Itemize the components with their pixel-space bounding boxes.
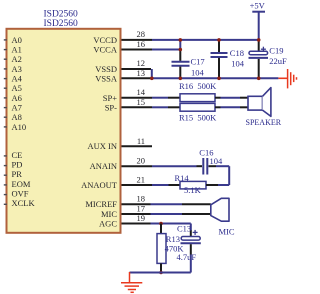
pin 11 stub (AUX IN, unconnected) [122,145,153,147]
svg-text:VCCD: VCCD [93,35,117,45]
wire C16 to corner [216,165,229,167]
wire pin17 to mic [151,213,183,215]
svg-text:C13: C13 [177,224,191,234]
resistor R16 body [180,94,215,102]
speaker pin top [240,97,248,99]
resistor R15 right lead [215,106,221,108]
capacitor C16 left lead [197,165,203,167]
svg-text:C18: C18 [230,48,244,58]
wire R16 to speaker [221,97,241,99]
pin 12 stub [122,68,152,70]
ground right bars [288,69,297,88]
capacitor C13 bottom lead [190,244,192,254]
left pin stubs A0-A10 [4,40,7,127]
svg-text:VSSD: VSSD [95,64,117,74]
wire pin12 drop to VSS [151,69,153,78]
resistor R14 left lead [169,184,181,186]
capacitor C13 top plate [181,237,200,241]
svg-text:SP+: SP+ [103,93,117,103]
svg-text:C17: C17 [191,57,205,67]
svg-text:ISD2560: ISD2560 [44,19,79,29]
left pin name labels CE..XCLK [12,150,36,208]
junction dots on VSS rail [150,77,261,81]
speaker LS1 horn [263,88,271,117]
svg-text:14: 14 [137,87,146,97]
IC U1 ISD2560 body [7,29,121,233]
capacitor C16 plates [203,158,207,175]
ground right (VSS) red lead [278,77,287,79]
svg-text:VCCA: VCCA [93,45,117,55]
capacitor C16 right lead [209,165,217,167]
pin 21 stub [122,184,153,186]
wire feedback vertical [228,166,230,185]
svg-text:AGC: AGC [99,219,117,229]
pin 19 stub [122,223,151,225]
svg-text:470K: 470K [165,243,185,253]
svg-text:XCLK: XCLK [12,198,36,208]
mic pin bottom [182,213,211,215]
wire vertical 28-16 connector [179,39,181,50]
svg-text:4.7uF: 4.7uF [177,252,197,262]
resistor R15 body [180,103,215,111]
svg-text:ANAOUT: ANAOUT [81,180,118,190]
junction dot R13/rail [159,271,163,275]
capacitor C19 bottom lead [258,59,260,78]
pin 14 stub [122,97,153,99]
svg-text:ANAIN: ANAIN [90,161,117,171]
pin 13 stub [122,77,152,79]
svg-text:OVF: OVF [12,189,29,199]
svg-text:A2: A2 [12,54,22,64]
capacitor C17 top lead [179,51,181,61]
capacitor C17 bottom lead [179,67,181,78]
svg-text:A4: A4 [12,74,23,84]
junction dots on VCC rail [179,38,261,51]
wire pin16 to node [152,49,180,51]
resistor R14 body [180,181,206,189]
svg-text:104: 104 [210,156,224,166]
pin 20 stub [122,165,153,167]
capacitor C19 bottom plate [249,57,269,59]
capacitor C13 bottom plate [181,242,201,244]
junction dot AGC/R13 [159,222,163,226]
wire pin14 to R16 [152,97,168,99]
capacitor C19 top lead [258,41,260,51]
svg-text:MIC: MIC [101,209,117,219]
wire pin19 AGC net [151,223,191,225]
wire AGC down to C13 [190,224,192,231]
svg-text:A6: A6 [12,93,22,103]
wire R14 to corner [218,184,229,186]
svg-text:CE: CE [12,150,23,160]
resistor R16 left lead [168,97,180,99]
pin 28 stub [122,39,153,41]
resistor R14 right lead [206,184,218,186]
wire pin18 to mic [151,203,183,205]
speaker LS1 box [248,96,263,110]
svg-text:A10: A10 [12,122,27,132]
svg-text:28: 28 [137,29,146,39]
wire bottom ground rail [130,272,191,274]
pin 15 stub [122,106,153,108]
capacitor C18 bottom lead [218,58,220,78]
capacitor C13 top lead [190,230,192,236]
microphone MK1 symbol [211,198,229,221]
svg-text:VSSA: VSSA [95,74,118,84]
svg-text:C19: C19 [269,45,283,55]
svg-text:A7: A7 [12,103,22,113]
capacitor C13 plus sign [193,230,198,235]
resistor R13 body [157,234,166,264]
svg-text:20: 20 [137,156,146,166]
svg-text:+5V: +5V [250,1,266,11]
svg-text:PD: PD [12,160,23,170]
wire R15 to speaker [221,106,241,108]
svg-text:MICREF: MICREF [85,199,117,209]
capacitor C18 top lead [218,41,220,52]
svg-text:R14: R14 [175,173,190,183]
svg-text:EOM: EOM [12,179,31,189]
svg-text:A1: A1 [12,45,22,55]
ground bottom bars [121,283,142,293]
pin 17 stub [122,213,151,215]
resistor R13 top lead [160,224,162,234]
svg-text:MIC: MIC [219,226,235,236]
left pin stubs CE..XCLK [4,156,7,204]
svg-text:18: 18 [137,194,146,204]
power +5V stem [258,12,260,40]
wire pin15 to R15 [152,106,168,108]
mic pin top [182,203,211,205]
power +5V bar [252,11,265,13]
svg-text:104: 104 [191,67,205,77]
wire VSS rail [152,77,279,79]
svg-text:A5: A5 [12,83,22,93]
svg-text:5.1K: 5.1K [184,185,202,195]
svg-text:R15 500K: R15 500K [179,112,217,122]
svg-text:22uF: 22uF [269,56,287,66]
resistor R16 right lead [215,97,221,99]
svg-text:11: 11 [137,136,145,146]
svg-text:A8: A8 [12,112,22,122]
svg-text:A0: A0 [12,35,22,45]
svg-text:AUX IN: AUX IN [87,141,117,151]
wire pin21 to R14 [152,184,169,186]
right pin number labels [137,29,146,223]
svg-text:R16 500K: R16 500K [179,81,217,91]
wire VCC rail [152,39,259,41]
pin 16 stub [122,49,153,51]
resistor R13 bottom lead [160,263,162,272]
svg-text:104: 104 [231,58,245,68]
svg-text:SPEAKER: SPEAKER [246,118,282,127]
wire pin20 to C16 [152,165,197,167]
left pin name labels A0-A10 [12,35,27,132]
svg-text:PR: PR [12,169,23,179]
ground bottom stem [129,272,131,282]
svg-text:A3: A3 [12,64,22,74]
pin 18 stub [122,203,151,205]
wire C13 down to rail [190,255,192,273]
svg-text:12: 12 [137,58,146,68]
right pin name labels [81,35,118,229]
capacitor C19 plus sign [261,47,266,52]
capacitor C18 plates [211,53,228,57]
svg-text:21: 21 [137,174,146,184]
speaker pin bottom [240,106,248,108]
capacitor C19 top plate [249,51,268,54]
svg-text:SP-: SP- [105,103,117,113]
capacitor C17 plates [172,62,190,66]
resistor R15 left lead [168,106,180,108]
